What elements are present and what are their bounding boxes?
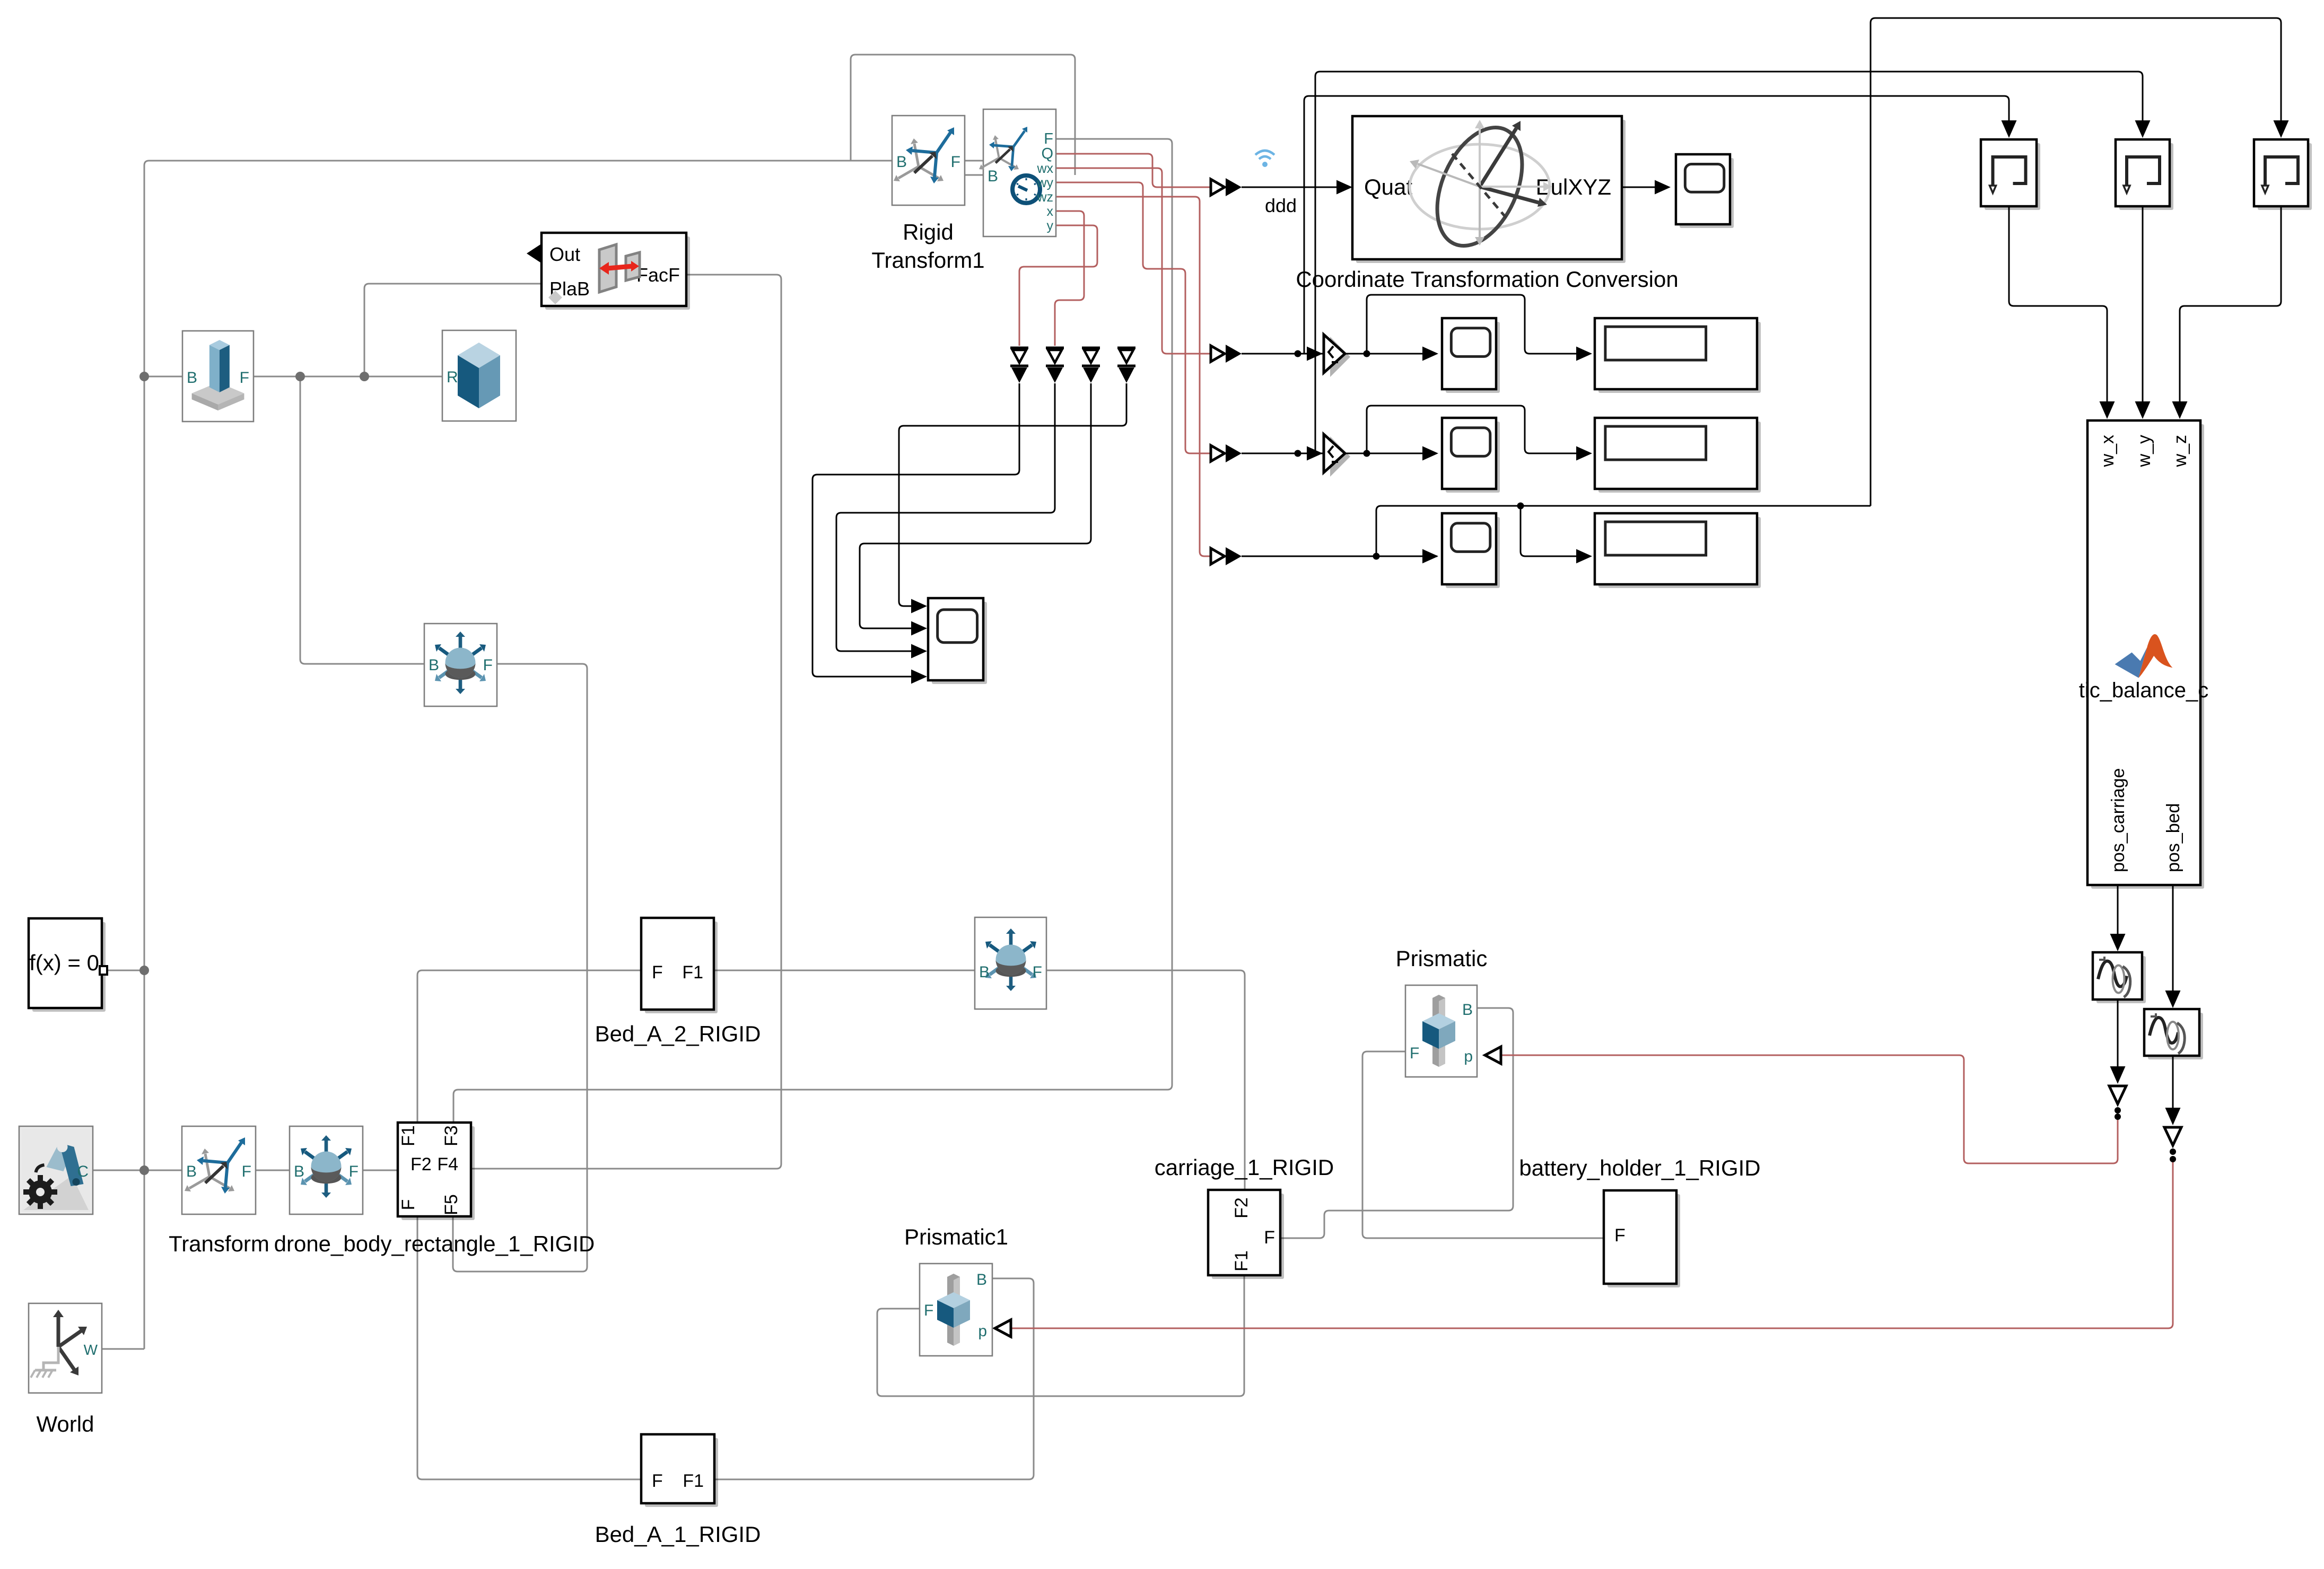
svg-text:F: F xyxy=(240,369,249,387)
svg-text:Bed_A_2_RIGID: Bed_A_2_RIGID xyxy=(595,1021,761,1046)
svg-text:F1: F1 xyxy=(682,962,703,983)
svg-text:battery_holder_1_RIGID: battery_holder_1_RIGID xyxy=(1519,1155,1760,1180)
svg-text:tic_balance_c: tic_balance_c xyxy=(2079,679,2209,702)
svg-text:F: F xyxy=(1264,1228,1275,1248)
svg-text:Prismatic1: Prismatic1 xyxy=(904,1224,1008,1249)
svg-text:F: F xyxy=(652,962,663,983)
svg-text:F: F xyxy=(349,1163,359,1180)
svg-text:x: x xyxy=(1047,204,1054,219)
svg-text:Q: Q xyxy=(1041,145,1053,162)
svg-text:p: p xyxy=(1464,1048,1473,1065)
svg-text:F: F xyxy=(1410,1045,1419,1062)
svg-text:B: B xyxy=(294,1163,304,1180)
svg-text:FacF: FacF xyxy=(636,264,680,286)
svg-text:B: B xyxy=(429,656,439,674)
svg-text:F2: F2 xyxy=(410,1154,432,1174)
svg-text:B: B xyxy=(976,1271,987,1288)
svg-text:Coordinate Transformation Conv: Coordinate Transformation Conversion xyxy=(1296,267,1678,292)
svg-text:f(x) = 0: f(x) = 0 xyxy=(29,950,99,975)
svg-text:B: B xyxy=(1462,1001,1473,1019)
svg-text:B: B xyxy=(186,1163,197,1180)
svg-text:B: B xyxy=(187,369,197,387)
svg-text:F3: F3 xyxy=(441,1125,461,1146)
svg-text:R: R xyxy=(447,369,458,386)
svg-text:Transform: Transform xyxy=(169,1231,269,1256)
svg-text:carriage_1_RIGID: carriage_1_RIGID xyxy=(1155,1155,1334,1180)
svg-text:ddd: ddd xyxy=(1265,195,1297,216)
svg-text:Prismatic: Prismatic xyxy=(1396,946,1488,971)
svg-text:F: F xyxy=(652,1471,663,1491)
svg-text:F5: F5 xyxy=(441,1194,461,1215)
svg-text:F: F xyxy=(242,1163,251,1180)
svg-text:wx: wx xyxy=(1036,161,1053,176)
svg-text:F: F xyxy=(1033,963,1042,981)
svg-text:W: W xyxy=(84,1342,98,1358)
svg-text:Transform1: Transform1 xyxy=(871,248,984,273)
svg-text:C: C xyxy=(77,1163,89,1180)
svg-text:F4: F4 xyxy=(437,1154,458,1174)
svg-text:Out: Out xyxy=(549,243,580,265)
svg-text:World: World xyxy=(37,1412,94,1436)
svg-text:p: p xyxy=(978,1322,987,1340)
svg-text:B: B xyxy=(979,963,990,981)
svg-text:drone_body_rectangle_1_RIGID: drone_body_rectangle_1_RIGID xyxy=(274,1231,595,1256)
svg-text:F: F xyxy=(924,1302,933,1319)
svg-text:F: F xyxy=(483,656,493,674)
svg-text:wy: wy xyxy=(1036,176,1053,190)
svg-text:F1: F1 xyxy=(398,1125,418,1146)
svg-text:F: F xyxy=(951,153,960,171)
svg-text:F1: F1 xyxy=(1231,1250,1252,1272)
svg-text:Rigid: Rigid xyxy=(903,220,954,244)
svg-text:B: B xyxy=(988,168,998,185)
svg-text:wz: wz xyxy=(1036,190,1053,205)
svg-text:Bed_A_1_RIGID: Bed_A_1_RIGID xyxy=(595,1522,761,1547)
svg-text:w_y: w_y xyxy=(2134,435,2154,467)
svg-text:pos_bed: pos_bed xyxy=(2163,803,2183,872)
svg-text:F2: F2 xyxy=(1231,1197,1252,1219)
svg-text:w_x: w_x xyxy=(2098,435,2118,467)
svg-text:F1: F1 xyxy=(683,1471,704,1491)
svg-text:F: F xyxy=(398,1199,418,1211)
svg-text:F: F xyxy=(1614,1225,1626,1246)
svg-text:Quat: Quat xyxy=(1364,174,1412,199)
svg-text:B: B xyxy=(896,153,907,171)
svg-text:pos_carriage: pos_carriage xyxy=(2108,768,2128,872)
svg-text:w_z: w_z xyxy=(2170,435,2190,467)
svg-text:y: y xyxy=(1047,218,1054,233)
